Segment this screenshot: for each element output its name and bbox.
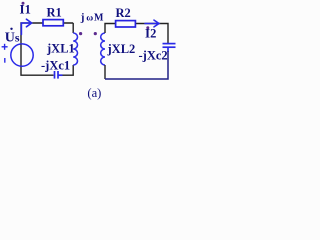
svg-text:R1: R1	[47, 6, 62, 20]
svg-text:I2: I2	[145, 26, 156, 41]
label Us with dot	[5, 28, 20, 46]
wire: L2 top vertical + right loop top horizontal to corner	[105, 24, 168, 44]
svg-text:jωM: jωM	[80, 11, 104, 23]
wire: left loop top horizontal (Us to L1 top corner)	[21, 23, 73, 45]
svg-text:jXL2: jXL2	[107, 42, 136, 56]
svg-text:I1: I1	[20, 2, 31, 17]
plus sign of source	[2, 44, 8, 50]
wire: L2 bottom vertical	[104, 65, 106, 79]
minus tick of source	[4, 58, 6, 63]
capacitor C1 (-jXc1) plates	[55, 71, 63, 79]
resistor R2	[116, 21, 136, 27]
coupling dot left	[79, 32, 82, 35]
svg-text:Us: Us	[5, 31, 20, 46]
capacitor C2 (-jXc2) plates	[163, 44, 176, 52]
wire: through-line of source	[20, 45, 22, 66]
svg-text:-jXc1: -jXc1	[41, 59, 70, 73]
svg-text:-jXc2: -jXc2	[139, 49, 168, 63]
wire: L1 bottom vertical + bottom-left run to capacitor C1	[62, 65, 73, 75]
inductor L1 (jXL1), bumps to the right	[73, 33, 77, 65]
wire: right loop right vertical below C2 + bottom run (navy)	[105, 51, 168, 79]
label I1 with dot	[20, 2, 31, 17]
coupling dot right	[94, 32, 97, 35]
inductor L2 (jXL2), bumps to the left	[101, 33, 105, 65]
svg-text:R2: R2	[116, 6, 131, 20]
voltage source Us circle	[11, 44, 33, 66]
svg-text:(a): (a)	[87, 86, 101, 100]
background	[0, 0, 178, 104]
label I2 with dot	[145, 26, 156, 41]
current arrow I1 (blue L-bend with open head)	[21, 19, 31, 34]
current arrow I2 (open head)	[145, 20, 159, 27]
resistor R1	[43, 20, 63, 26]
wire: L1 top vertical drop	[72, 23, 74, 33]
svg-text:jXL1: jXL1	[46, 42, 75, 56]
wire: bottom-left run from C1 to source bottom	[21, 66, 54, 76]
